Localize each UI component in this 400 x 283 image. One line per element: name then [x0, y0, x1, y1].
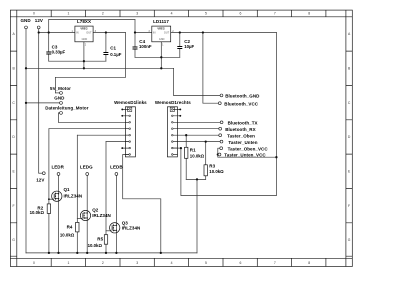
svg-text:7: 7 — [274, 12, 276, 16]
frame left letters — [12, 32, 15, 242]
junction Bluetooth VCC branch — [202, 31, 204, 33]
wire Taster VCC feeder — [218, 148, 277, 157]
wire 3.3V right drop — [275, 33, 277, 196]
svg-text:5: 5 — [205, 261, 207, 265]
wire pulldown drop to bus — [196, 179, 198, 253]
svg-text:IRLZ34N: IRLZ34N — [92, 213, 111, 218]
svg-text:5V_Motor: 5V_Motor — [50, 86, 71, 91]
connector pin 12V bottom — [36, 172, 45, 183]
wire LEDR drain line — [58, 175, 60, 253]
wire gate3 drop — [105, 142, 107, 235]
wire LEDB drain line — [115, 175, 117, 253]
connector pin LEDG — [80, 164, 93, 175]
wire end dot links pin2 — [121, 115, 123, 117]
svg-text:0: 0 — [33, 261, 35, 265]
svg-text:10.0kΩ: 10.0kΩ — [190, 153, 205, 158]
wire 3.3V bottom run — [181, 194, 277, 196]
svg-text:Bluetooth_TX: Bluetooth_TX — [228, 121, 258, 126]
wire GND_Motor pin run — [26, 102, 60, 104]
svg-text:2: 2 — [102, 12, 104, 16]
wire Bluetooth_TX row — [173, 121, 221, 123]
svg-text:0: 0 — [33, 12, 35, 16]
svg-text:5: 5 — [205, 12, 207, 16]
connector pin Taster_Unten — [220, 140, 258, 145]
wire GND pin vertical — [25, 29, 27, 253]
wire LEDG drain line — [86, 175, 88, 253]
connector pin Bluetooth_TX — [220, 121, 257, 126]
junction LD1117 input — [134, 31, 136, 33]
wire C4-C2 ground bus — [135, 56, 180, 58]
wire R4 bottom lead — [76, 232, 78, 253]
svg-text:GND: GND — [21, 18, 32, 23]
resistor R3 — [204, 163, 224, 176]
junction R3 tap — [205, 140, 207, 142]
wire C3 bottom lead — [48, 55, 50, 62]
wire gate1 drop — [48, 129, 50, 204]
svg-text:8: 8 — [308, 12, 310, 16]
wire 5V left run — [55, 76, 125, 78]
connector pin LEDB — [110, 164, 123, 175]
svg-text:10µF: 10µF — [184, 44, 194, 49]
wire Datenleitung pin stub — [58, 113, 60, 122]
wire 3.3V into row7 — [173, 147, 181, 149]
transistor Q1 — [52, 191, 62, 201]
wire 12V bottom pin stub — [39, 172, 43, 174]
svg-text:10.0kΩ: 10.0kΩ — [60, 233, 75, 238]
svg-text:100nF: 100nF — [139, 44, 152, 49]
svg-text:0.33µF: 0.33µF — [52, 50, 66, 55]
svg-text:R4: R4 — [67, 224, 73, 229]
svg-text:IN: IN — [76, 31, 79, 34]
svg-text:F: F — [13, 204, 15, 208]
frame bottom number-strip dividers — [51, 258, 326, 266]
wire to LD1117 IN — [135, 32, 152, 34]
wire Bluetooth_GND run — [174, 94, 221, 96]
connector pin Bluetooth_RX — [219, 127, 256, 132]
wire L78XX OUT 5V run — [93, 32, 125, 34]
svg-text:G: G — [12, 238, 15, 242]
svg-text:Bluetooth_GND: Bluetooth_GND — [225, 94, 260, 99]
svg-text:WemosD1rechts: WemosD1rechts — [155, 100, 191, 105]
svg-text:1: 1 — [67, 261, 69, 265]
wire Taster_Unten_VCC stub — [217, 154, 220, 156]
capacitor C1 — [103, 53, 108, 55]
svg-text:10.0kΩ: 10.0kΩ — [30, 210, 45, 215]
junction R4 at GND bus — [76, 252, 78, 254]
wire GND bottom bus — [26, 252, 197, 254]
svg-text:12V: 12V — [35, 18, 43, 23]
regulator U: LD1117 — [148, 19, 174, 46]
wire R1-R3 join — [186, 178, 206, 180]
svg-text:F: F — [348, 204, 350, 208]
wire R3 bottom lead — [205, 176, 207, 180]
wire gate2 drop — [76, 135, 78, 222]
frame right letters — [348, 32, 351, 242]
wire 12V riser to top — [48, 20, 50, 33]
resistor R4 — [60, 222, 79, 237]
svg-text:12V: 12V — [36, 177, 44, 182]
links header pin stubs — [122, 109, 129, 154]
wire gate2 row — [77, 134, 129, 136]
wire LD1117 GND drop — [160, 42, 162, 69]
connector pin GND motor — [54, 96, 65, 105]
svg-text:LEDG: LEDG — [80, 164, 93, 169]
svg-text:VREG: VREG — [157, 27, 164, 31]
connector pin 12V top — [35, 18, 43, 29]
svg-text:LEDR: LEDR — [51, 164, 64, 169]
junction LD1117 GND at GND bus — [160, 67, 162, 69]
junction GND bus left — [25, 67, 27, 69]
capacitor C4 — [133, 47, 138, 49]
frame outer border — [10, 10, 352, 266]
connector pin LEDR — [51, 164, 64, 175]
wire C2 top lead — [179, 33, 181, 47]
junction R1-R3 to GND — [196, 178, 198, 180]
svg-text:L78XX: L78XX — [77, 19, 91, 24]
connector pin Taster_Oben — [219, 133, 255, 138]
header WemosD1rechts — [155, 100, 191, 157]
svg-text:6: 6 — [239, 261, 241, 265]
svg-text:Q1: Q1 — [64, 187, 71, 192]
connector pin Taster_Unten_VCC — [218, 153, 266, 158]
svg-text:Taster_Oben: Taster_Oben — [227, 133, 255, 138]
wire C2 bottom lead — [179, 49, 181, 57]
svg-text:Q2: Q2 — [92, 208, 99, 213]
connector pin Bluetooth_VCC — [218, 101, 258, 106]
wire 12V to L78XX IN — [39, 32, 75, 34]
wire Q3 gate lead — [106, 230, 111, 232]
wire Q2 gate lead — [77, 218, 82, 220]
wire R3 top lead — [205, 142, 207, 165]
connector pin GND top — [21, 18, 32, 29]
svg-text:LD1117: LD1117 — [153, 19, 169, 24]
junction 3.3V row7 tap — [180, 147, 182, 149]
connector pin Bluetooth_GND — [220, 94, 260, 99]
wire end dot rechts pin1 — [179, 108, 181, 110]
svg-text:Taster_Oben_VCC: Taster_Oben_VCC — [228, 146, 269, 151]
wire 5V_Motor pin stub — [55, 92, 60, 94]
junction L78XX GND at cap bus — [83, 60, 85, 62]
svg-text:GND: GND — [54, 96, 65, 101]
svg-text:7: 7 — [274, 261, 276, 265]
wire R1 bottom lead — [185, 158, 187, 179]
frame bottom numbers — [33, 261, 310, 265]
wire 12V pin vertical — [38, 29, 40, 174]
frame right letter-strip dividers — [346, 51, 352, 256]
capacitor C2 — [177, 47, 182, 49]
wire C1 top lead — [105, 33, 107, 53]
svg-text:OUT: OUT — [164, 31, 170, 34]
junction header GND at GND bus — [160, 252, 162, 254]
junction R1 tap — [185, 134, 187, 136]
svg-text:C3: C3 — [52, 44, 58, 49]
svg-text:4: 4 — [171, 12, 173, 16]
wire gate1 row — [49, 128, 129, 130]
wire end dot links pin7 — [121, 147, 123, 149]
connector pin Taster_Oben_VCC — [220, 146, 269, 151]
wire Bluetooth_VCC drop — [202, 33, 204, 104]
wire gate3 row — [106, 141, 129, 143]
svg-text:GND: GND — [82, 38, 88, 41]
svg-text:LEDB: LEDB — [110, 164, 123, 169]
junction C2 branch — [179, 31, 181, 33]
frame top numbers — [33, 12, 310, 16]
svg-text:G: G — [348, 238, 351, 242]
resistor R1 — [185, 147, 205, 158]
svg-text:10.0kΩ: 10.0kΩ — [209, 169, 224, 174]
wire 12V top run — [49, 19, 135, 21]
svg-text:3: 3 — [136, 261, 138, 265]
svg-text:Datenleitung_Motor: Datenleitung_Motor — [45, 106, 89, 111]
regulator U: L78XX — [72, 19, 97, 46]
frame top number-strip dividers — [51, 10, 326, 17]
svg-text:2: 2 — [102, 261, 104, 265]
junction Taster VCC feeder — [275, 156, 277, 158]
wire C3-C1 ground bus — [49, 60, 106, 62]
rechts header pin stubs — [173, 109, 180, 154]
svg-text:C1: C1 — [110, 45, 116, 50]
wire 12V drop to LD1117 — [134, 20, 136, 33]
svg-text:R3: R3 — [209, 163, 215, 168]
svg-text:GND: GND — [159, 38, 165, 41]
junction L78XX GND at GND bus — [83, 67, 85, 69]
capacitor C3 — [46, 52, 51, 54]
svg-text:8: 8 — [308, 261, 310, 265]
junction Q1 source at GND bus — [57, 252, 59, 254]
frame left letter-strip dividers — [10, 51, 16, 256]
svg-text:1: 1 — [67, 12, 69, 16]
connector pin 5V_Motor — [50, 86, 71, 94]
svg-text:10.0kΩ: 10.0kΩ — [88, 243, 103, 248]
wire Bluetooth_RX row — [173, 128, 219, 130]
svg-text:Q3: Q3 — [122, 220, 129, 225]
svg-text:IRLZ34N: IRLZ34N — [64, 194, 83, 199]
header WemosD1links — [114, 100, 147, 157]
junction Q3 source at GND bus — [115, 252, 117, 254]
svg-text:IN: IN — [153, 31, 156, 34]
wire R2 bottom lead — [48, 213, 50, 253]
svg-text:VREG: VREG — [80, 27, 87, 31]
svg-text:3: 3 — [136, 12, 138, 16]
junction R5 at GND bus — [105, 252, 107, 254]
wire end dot rechts pin2 — [179, 115, 181, 117]
junction Q2 source at GND bus — [86, 252, 88, 254]
wire Datenleitung run to header — [58, 121, 129, 123]
svg-text:WemosD1links: WemosD1links — [114, 100, 147, 105]
wire C4 top lead — [134, 33, 136, 47]
junction 12V branch — [38, 31, 40, 33]
svg-text:Bluetooth_RX: Bluetooth_RX — [225, 127, 255, 132]
svg-text:Taster_Unten: Taster_Unten — [228, 140, 257, 145]
junction C3 branch — [48, 31, 50, 33]
junction LD1117 GND at cap bus — [160, 56, 162, 58]
frame inner border lines — [10, 10, 352, 266]
wire 5V down to motor pin — [54, 77, 56, 93]
wire C1 bottom lead — [105, 55, 107, 61]
svg-text:R5: R5 — [97, 237, 103, 242]
transistor Q3 — [110, 223, 120, 233]
junction Q1 gate — [48, 198, 50, 200]
junction GND motor tap — [25, 102, 27, 104]
resistor R2 — [30, 204, 51, 215]
svg-text:0.1µF: 0.1µF — [110, 52, 122, 57]
svg-text:6: 6 — [239, 12, 241, 16]
wire L78XX GND drop — [83, 42, 85, 69]
connector pin Datenleitung_Motor — [45, 106, 89, 115]
svg-text:R1: R1 — [190, 148, 196, 153]
wire R1 top lead — [185, 135, 187, 147]
junction Taster VCC join — [217, 153, 219, 155]
resistor R5 — [88, 235, 108, 248]
wire end dot links pin1 — [121, 108, 123, 110]
wire 3.3V rail from LD1117 OUT — [171, 32, 277, 34]
wire Taster_Unten row — [173, 141, 220, 143]
wire GND right drop — [173, 68, 175, 95]
svg-text:Taster_Unten_VCC: Taster_Unten_VCC — [224, 153, 266, 158]
wire C3 top lead — [48, 33, 50, 52]
wire links row8 GND route — [123, 155, 161, 253]
wire Taster_Oben row — [173, 134, 219, 136]
transistor Q2 — [80, 210, 90, 220]
wire GND horizontal bus2 — [26, 67, 174, 69]
svg-text:4: 4 — [171, 261, 173, 265]
wire 3.3V riser to header — [180, 148, 182, 195]
junction R2 at GND bus — [48, 252, 50, 254]
wire 5V drop — [124, 33, 126, 78]
wire Bluetooth_VCC run — [203, 102, 219, 104]
svg-text:Bluetooth_VCC: Bluetooth_VCC — [224, 101, 258, 106]
wire C4 bottom lead — [134, 50, 136, 58]
wire R5 bottom lead — [105, 244, 107, 253]
svg-text:OUT: OUT — [86, 31, 92, 34]
junction C1 branch — [105, 31, 107, 33]
wire Q1 gate lead — [49, 198, 54, 200]
svg-text:IRLZ34N: IRLZ34N — [122, 226, 141, 231]
